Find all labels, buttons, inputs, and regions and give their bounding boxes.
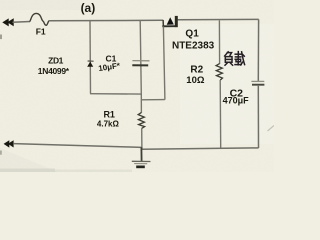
input arrow top-left xyxy=(2,18,13,26)
resistor R2 wire upper xyxy=(218,20,220,64)
resistor R1 wire upper xyxy=(140,94,142,113)
capacitor C2 plates xyxy=(251,81,264,84)
resistor R2 wire lower xyxy=(219,80,222,148)
right rail upper xyxy=(257,19,259,81)
wire: top rail Q1 to right corner xyxy=(178,18,259,20)
zener ZD1 branch wire xyxy=(89,21,92,94)
edge mark bottom-left xyxy=(0,151,2,155)
zener ZD1 symbol xyxy=(87,61,93,67)
capacitor C1 plates xyxy=(132,61,149,66)
wire: Q1 base down xyxy=(163,26,165,99)
wire: bottom rail right xyxy=(141,148,258,149)
bottom rail left with arrow xyxy=(4,140,14,147)
scan artifact diagonal bottom-right xyxy=(268,126,275,132)
wire: zener bottom to node xyxy=(90,93,141,95)
wire: arrow to fuse xyxy=(13,21,31,24)
wire: base node left xyxy=(141,99,165,101)
load label (CJK drawn as strokes) xyxy=(225,52,245,66)
ground symbol xyxy=(132,161,151,168)
wire: bottom rail left xyxy=(14,144,142,148)
paper background xyxy=(0,0,274,172)
capacitor C1 branch wire xyxy=(140,21,141,95)
resistor R1 zigzag xyxy=(138,113,144,129)
ground stem xyxy=(140,147,142,161)
fuse F1 xyxy=(30,13,50,25)
transistor Q1 xyxy=(162,16,178,27)
resistor R2 zigzag xyxy=(216,64,222,81)
wire: top rail fuse to Q1 xyxy=(49,19,163,22)
edge mark top-left xyxy=(0,35,2,40)
right rail lower xyxy=(257,85,259,148)
resistor R1 wire lower xyxy=(141,128,143,148)
